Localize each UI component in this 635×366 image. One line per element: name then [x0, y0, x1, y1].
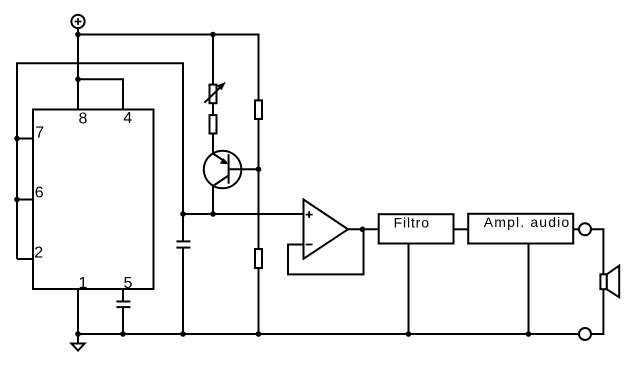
wire: power terminal to VCC rail: [77, 28, 79, 34]
wire: filter to amplifier: [454, 228, 469, 230]
junction: amplifier drop / ground rail: [526, 331, 532, 337]
wire: pin 2 stub: [17, 258, 33, 260]
variable resistor RV1 adjustment arrow: [205, 82, 226, 103]
svg-text:Filtro: Filtro: [394, 215, 430, 231]
terminal: output bottom: [579, 328, 591, 340]
wire: op-amp feedback loop (output to inverting input): [288, 229, 364, 274]
wire: resistor R3 to ground rail: [258, 268, 260, 334]
wire: capacitor C1 to ground rail: [182, 248, 184, 334]
wire: VCC top rail: [78, 35, 259, 101]
wire: transistor base to resistor chain: [229, 168, 259, 170]
block: Filtro box: [379, 214, 454, 243]
wire: amplifier output to top terminal: [573, 228, 579, 230]
junction: op-amp output / feedback: [360, 227, 366, 233]
svg-text:6: 6: [35, 185, 44, 202]
wire: pin 7 stub: [17, 138, 33, 140]
resistor R2 body: [255, 100, 262, 119]
wire: resistor R2 to base node and down: [258, 119, 260, 249]
IC U1 body (555 timer): [33, 110, 154, 290]
svg-text:4: 4: [123, 110, 132, 127]
wire: mid horizontal rail to op-amp + input: [183, 213, 304, 215]
wire: top terminal to speaker: [591, 229, 603, 274]
wire: pin 6 stub: [17, 199, 33, 201]
svg-text:Ampl. audio: Ampl. audio: [484, 214, 570, 230]
junction: pin 1 / ground rail: [75, 331, 81, 337]
svg-text:2: 2: [34, 245, 43, 262]
junction: C2 / ground rail: [120, 331, 126, 337]
wire: loop connecting pins 7,6,2 (left rail and top run): [17, 63, 183, 259]
wire: filter ground drop: [408, 244, 410, 335]
wire: resistor R1 to transistor emitter: [212, 134, 214, 155]
variable resistor RV1 body: [210, 85, 217, 104]
junction: collector / mid rail: [210, 211, 216, 217]
junction: left rail / pin 7: [14, 136, 20, 142]
capacitor C2 (pin 5 bypass): [116, 302, 130, 308]
ground symbol: [71, 334, 84, 351]
junction: C1 / ground rail: [180, 331, 186, 337]
junction: filter drop / ground rail: [406, 331, 412, 337]
capacitor C1 (timing capacitor): [176, 241, 190, 247]
wire: pin 1 to ground rail: [77, 289, 79, 334]
wire: pin 5 down to capacitor: [122, 289, 124, 301]
junction: R3 / ground rail: [256, 331, 262, 337]
terminal: output top: [579, 223, 591, 235]
svg-text:5: 5: [124, 275, 133, 292]
resistor R1 body: [210, 115, 217, 133]
wire: transistor collector down to mid rail: [212, 185, 214, 214]
junction: power terminal / VCC rail: [75, 32, 81, 38]
junction: transistor base / resistor chain: [256, 166, 262, 172]
junction: VCC rail / trimmer branch: [210, 32, 216, 38]
junction: loop rail / mid rail: [180, 211, 186, 217]
svg-text:8: 8: [79, 110, 88, 127]
resistor R3 body: [255, 249, 262, 268]
wire: VCC feed down to pin 8: [77, 35, 79, 110]
power supply positive terminal symbol: [71, 15, 84, 28]
wire: VCC branch down to resistor R2: [258, 35, 260, 101]
svg-text:7: 7: [35, 125, 44, 142]
wire: speaker to bottom terminal: [591, 289, 603, 334]
transistor Q1 (PNP): [204, 151, 242, 189]
junction: left rail / pin 6: [14, 197, 20, 203]
junction: pin 8 feed / pin 4 branch: [75, 77, 81, 83]
wire: trimmer to resistor R1: [212, 103, 214, 115]
wire: op-amp output to filter: [348, 228, 379, 230]
wire: amplifier ground drop: [528, 244, 530, 335]
block: Ampl. audio box: [468, 214, 573, 244]
op-amp U2: [304, 200, 349, 259]
wire: branch to pin 4: [78, 79, 123, 109]
speaker LS1: [600, 266, 619, 298]
wire: ground bottom rail: [78, 333, 579, 335]
svg-text:1: 1: [79, 275, 88, 292]
wire: capacitor C2 to ground rail: [122, 307, 124, 334]
wire: VCC rail branch at x=213 down to trimmer: [212, 35, 214, 85]
